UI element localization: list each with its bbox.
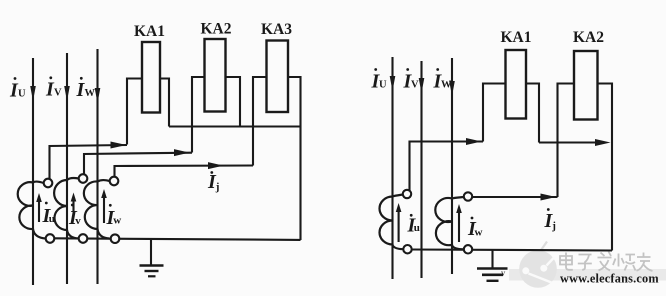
KA3 left stub — [253, 77, 267, 166]
svg-text:KA2: KA2 — [201, 21, 232, 38]
relay return bus (left) — [169, 125, 301, 127]
KA3 right stub and vertical down to bottom — [288, 77, 301, 240]
arrow on phase V (right) — [419, 78, 425, 93]
svg-text:V: V — [411, 80, 419, 91]
CT TA-v top terminal — [79, 174, 88, 183]
CT TA-w secondary arrow (right) — [458, 209, 460, 242]
glyph dian — [560, 253, 573, 270]
KA2 left stub (right) — [558, 84, 575, 198]
arrow on phase U (right) — [390, 76, 396, 91]
svg-text:V: V — [54, 88, 62, 99]
CT TA-u (left): winding — [18, 182, 46, 239]
svg-text:W: W — [441, 80, 452, 91]
svg-text:W: W — [85, 88, 96, 99]
KA1 left stub — [127, 79, 142, 145]
watermark logo — [519, 242, 557, 288]
svg-text:www.elecfans.com: www.elecfans.com — [560, 272, 659, 286]
svg-text:U: U — [18, 89, 26, 100]
bottom neutral wire (left) — [54, 238, 300, 240]
CT TA-u top terminal — [44, 179, 53, 188]
CT TA-u bottom terminal (right) — [403, 245, 411, 253]
glyph zi — [578, 255, 592, 270]
relay coil KA1 (right) — [506, 50, 527, 119]
wire CT-v to KA2 — [84, 153, 192, 175]
CT TA-w (right): winding — [435, 197, 464, 249]
CT TA-v secondary arrow — [72, 198, 74, 212]
svg-text:j: j — [551, 220, 556, 232]
svg-text:U: U — [379, 80, 387, 91]
CT TA-w top terminal — [110, 177, 119, 186]
arrow on phase W (left) — [95, 88, 101, 103]
KA2 left stub — [192, 77, 205, 153]
svg-text:KA2: KA2 — [573, 29, 604, 46]
CT TA-w secondary arrow — [103, 194, 105, 223]
relay coil KA2 (left) — [205, 39, 226, 112]
CT TA-w (left): winding — [84, 180, 110, 238]
svg-text:w: w — [113, 215, 121, 227]
CT TA-v bottom terminal — [79, 234, 88, 243]
CT TA-w top terminal (right) — [464, 192, 472, 200]
svg-text:j: j — [215, 181, 220, 193]
wire CT-u to KA1 (right) — [410, 142, 484, 191]
svg-text:u: u — [49, 213, 55, 225]
phase line U (left) — [32, 58, 34, 285]
svg-text:KA3: KA3 — [261, 21, 292, 38]
wire KA1 to KA2-right (right) — [539, 141, 595, 143]
svg-text:w: w — [475, 227, 483, 239]
svg-text:KA1: KA1 — [501, 29, 532, 46]
watermark chinese text (vector pseudo-glyphs) — [560, 252, 653, 272]
relay coil KA1 (left) — [142, 42, 160, 113]
wire CT-w to KA2 (right) — [472, 196, 557, 198]
arrow on phase W (right) — [449, 81, 455, 96]
ground (right) — [491, 250, 493, 269]
CT TA-u (right): winding — [380, 195, 404, 250]
CT TA-u secondary arrow — [38, 198, 40, 222]
phase line U (right) — [391, 57, 393, 279]
glyph shao — [613, 254, 636, 271]
phase line V (right) — [420, 61, 422, 278]
glyph fa — [598, 252, 612, 271]
KA1 right stub and vertical — [160, 79, 169, 127]
CT TA-u top terminal (right) — [403, 190, 411, 198]
bottom neutral wire (right) — [412, 250, 612, 251]
svg-text:KA1: KA1 — [134, 23, 165, 40]
glyph you — [637, 253, 653, 272]
wire CT-w to KA3 — [115, 166, 254, 177]
phase line V (left) — [66, 53, 68, 284]
KA1 left stub (right) — [483, 84, 506, 142]
arrow on phase V (left) — [64, 86, 70, 101]
CT TA-w bottom terminal — [111, 234, 120, 243]
phase line W (left) — [96, 49, 98, 284]
relay coil KA3 (left) — [267, 41, 289, 113]
arrow on phase U (left) — [30, 86, 36, 101]
KA2 right stub (right) — [598, 84, 613, 251]
KA1 right stub (right) — [526, 84, 539, 143]
watermark band — [509, 269, 666, 281]
phase line W (right) — [451, 58, 453, 274]
CT TA-v (left): winding — [54, 178, 79, 239]
wire CT-u to KA1 — [50, 145, 128, 179]
KA2 right stub and vertical — [226, 77, 241, 127]
CT TA-w bottom terminal (right) — [464, 245, 472, 253]
ground (left) — [150, 239, 152, 266]
relay coil KA2 (right) — [574, 51, 598, 120]
svg-text:u: u — [414, 222, 420, 234]
CT TA-u bottom terminal — [46, 234, 55, 243]
CT TA-u secondary arrow (right) — [398, 208, 400, 242]
svg-text:v: v — [75, 215, 81, 227]
